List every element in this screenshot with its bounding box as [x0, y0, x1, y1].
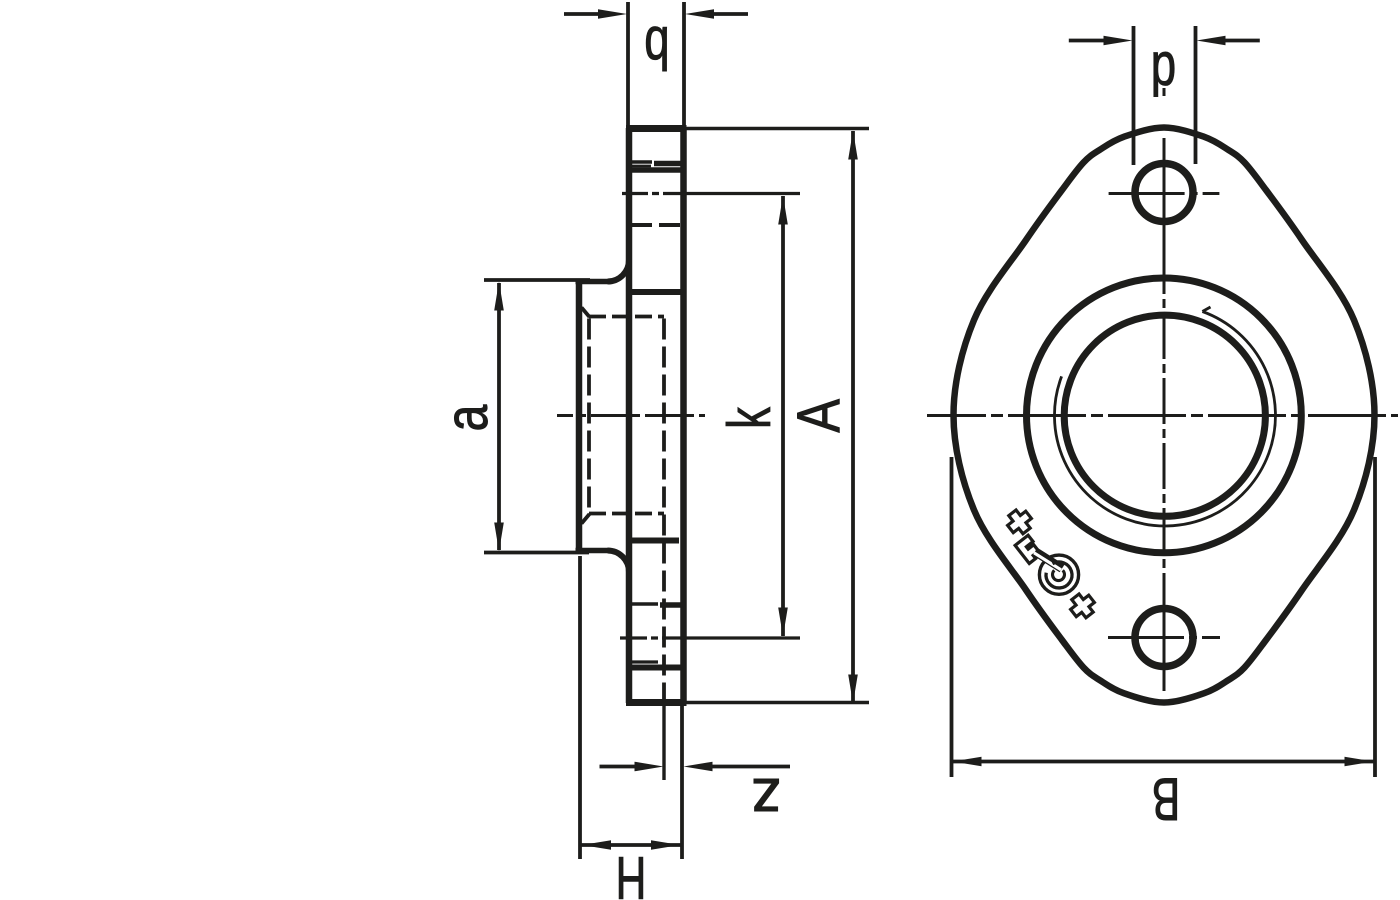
hub fillet top: [608, 260, 630, 282]
top bolt hole hidden edge lower dash 2: [659, 223, 680, 227]
bore hidden line bottom: [589, 512, 664, 516]
dimension d: extension line right: [1194, 26, 1198, 164]
dimension a bottom extension: [484, 551, 589, 555]
thread runout tick: [1202, 307, 1210, 312]
dimension H: left arrowhead (points left): [582, 840, 611, 850]
bottom bolt hole: [1135, 609, 1193, 667]
dimension B: left arrowhead (points left): [953, 757, 982, 767]
face step line lower: [631, 538, 679, 544]
thread arc: [1054, 312, 1275, 526]
bottom bolt hole hidden edge upper thin: [631, 602, 658, 605]
dimension d: left arrowhead: [1104, 36, 1133, 46]
logo plus top-left: [1003, 506, 1035, 538]
dimension k: top arrowhead: [778, 196, 788, 225]
logo letter G outer ring: [1039, 555, 1078, 594]
horizontal centerline: [927, 414, 1398, 417]
dimension A: top arrowhead: [848, 131, 858, 160]
top bolt hole hidden edge upper thin b: [631, 165, 651, 168]
bore hidden line left vertical: [587, 317, 591, 513]
bolt circle centerline top (k extension): [622, 192, 800, 195]
outer face circle: [1027, 278, 1302, 553]
bore circle: [1064, 315, 1265, 516]
top bolt hole hidden edge upper thin a: [631, 160, 652, 163]
centerline left view: [557, 414, 705, 417]
dimension z: left arrowhead: [635, 762, 664, 772]
bottom serration line: [631, 665, 684, 671]
bore chamfer hidden diagonal bottom: [582, 514, 590, 524]
dimension b: extension line right: [682, 2, 686, 131]
svg-text:B: B: [1152, 765, 1180, 832]
bore hidden line right vertical: [662, 317, 666, 702]
dimension d: left arrow line: [1069, 39, 1106, 43]
top bolt hole hidden edge upper thick right: [654, 161, 684, 167]
dimension H: extension line left: [578, 556, 582, 859]
dimension a: bottom arrowhead: [494, 523, 504, 552]
dimension H: right arrowhead (points right): [651, 840, 680, 850]
dimension B: extension line right: [1373, 457, 1377, 777]
oval flange outline: [954, 128, 1375, 703]
vertical centerline: [1163, 88, 1166, 96]
dimension B: extension line left: [950, 457, 954, 777]
dimension a: top arrowhead: [494, 282, 504, 311]
svg-text:H: H: [616, 843, 647, 900]
dimension b: left arrow line: [564, 12, 600, 16]
GF logo: [1003, 506, 1098, 622]
dimension d: extension line left: [1132, 26, 1136, 165]
hub fillet bottom: [608, 551, 630, 573]
dimension A: line: [851, 131, 855, 703]
bottom bolt hole hidden edge lower thin: [631, 660, 658, 663]
hub top face thick part: [576, 279, 609, 285]
dimension b: right arrowhead: [685, 9, 714, 19]
plate right edge: [680, 128, 687, 703]
plate bottom edge: [626, 699, 687, 706]
plate top edge: [626, 125, 687, 132]
plate left edge: [626, 128, 633, 703]
hub bottom face thick part: [576, 548, 609, 554]
logo G spur bar white core: [1034, 553, 1061, 570]
top bolt hole: [1135, 164, 1193, 222]
bore hidden line top: [589, 315, 664, 319]
logo plus bottom-right: [1066, 590, 1098, 622]
vertical centerline solid across bottom hole: [1163, 600, 1166, 691]
dimension z: right arrowhead: [684, 762, 713, 772]
logo letter F: [1015, 535, 1042, 563]
vertical centerline solid across top hole: [1163, 138, 1166, 268]
dimension z: right arrow line: [711, 765, 790, 769]
logo G spur bar black: [1035, 552, 1062, 569]
top bolt hole centerline: [1109, 192, 1220, 195]
dimension A: bottom arrowhead: [848, 675, 858, 704]
dimension A: bottom extension line: [686, 701, 869, 704]
logo G center hook: [1053, 570, 1065, 580]
dimension b: right arrow line: [712, 12, 748, 16]
hub top face / dimension a top extension: [484, 278, 590, 282]
svg-text:k: k: [717, 406, 784, 428]
dimension d: right arrowhead: [1197, 36, 1226, 46]
svg-text:A: A: [785, 399, 852, 433]
svg-text:d: d: [1151, 40, 1176, 106]
dimension a: line: [497, 283, 501, 550]
dimension b: left arrowhead: [598, 9, 627, 19]
dimension z: extension line left (below plate): [662, 705, 665, 780]
dimension b: extension line left: [626, 2, 630, 128]
svg-text:a: a: [433, 404, 500, 431]
top serration line: [631, 167, 684, 173]
dimension B: right arrowhead (points right): [1345, 757, 1374, 767]
dimension z: extension line right / H right extension: [680, 705, 684, 859]
bottom bolt hole centerline: [1108, 636, 1220, 639]
svg-text:z: z: [751, 766, 781, 833]
dimension k: bottom arrowhead: [778, 608, 788, 637]
dimension d: right arrow line: [1223, 39, 1260, 43]
bottom bolt hole hidden edge upper thick: [660, 602, 684, 608]
top bolt hole hidden edge lower dash 1: [631, 223, 652, 227]
dimension z: left arrow line: [600, 765, 637, 769]
bolt circle centerline bottom (k extension): [620, 636, 800, 639]
logo G middle spiral arc: [1046, 562, 1072, 588]
dimension H: line: [581, 843, 681, 847]
bore chamfer hidden diagonal top: [582, 308, 590, 318]
dimension A: top extension line: [686, 127, 869, 130]
dimension B: line: [952, 760, 1374, 764]
face step line upper: [631, 289, 684, 295]
dimension k: line: [781, 196, 785, 636]
hub front face edge: [576, 280, 583, 551]
svg-text:b: b: [644, 14, 669, 80]
vertical centerline chain middle: [1163, 268, 1166, 600]
